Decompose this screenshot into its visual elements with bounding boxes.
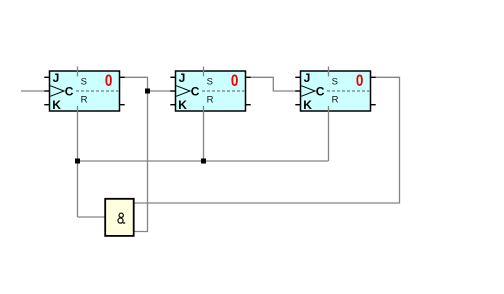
- wire: node A down and left to AND gate U4 lower input: [134, 91, 148, 232]
- svg-text:K: K: [52, 98, 61, 112]
- U2 pin R stub: [203, 106, 205, 112]
- svg-text:K: K: [178, 98, 187, 112]
- wire: AND gate U4 output to node B: [78, 216, 106, 218]
- jk flip-flop U2: [170, 67, 250, 113]
- U3 pin K: [295, 104, 300, 106]
- svg-text:J: J: [179, 71, 186, 85]
- wire: node A to U2.C: [148, 90, 172, 92]
- U3 S-R dashed divider: [327, 90, 369, 92]
- wire: U1.R down to AND output node: [77, 111, 79, 217]
- wire: U2.Q right, down, right to U3.C: [251, 77, 297, 91]
- junction node A: [145, 89, 150, 94]
- U1 pin R stub: [77, 106, 79, 112]
- U1 body: [50, 71, 120, 111]
- svg-text:J: J: [304, 71, 311, 85]
- junction node B: [75, 159, 80, 164]
- U1 S-R dashed divider: [76, 90, 118, 92]
- svg-text:0: 0: [356, 72, 364, 90]
- U1 pin Q: [120, 76, 125, 78]
- U2 pin C: [170, 90, 175, 92]
- svg-text:S: S: [332, 77, 338, 88]
- svg-text:C: C: [65, 84, 74, 98]
- junction node C: [201, 159, 206, 164]
- svg-text:0: 0: [231, 72, 239, 90]
- U1 pin K: [44, 104, 49, 106]
- U2 pin Q: [246, 76, 251, 78]
- wire: clock input to U1.C: [21, 90, 45, 92]
- U4 body: [105, 199, 134, 236]
- U2 S-R dashed divider: [202, 90, 244, 92]
- U3 pin J: [295, 76, 300, 78]
- U1 pin notQ: [120, 104, 125, 106]
- svg-text:S: S: [207, 77, 213, 88]
- U3 clock edge triangle: [301, 86, 315, 97]
- wire: U2.R down to reset bus: [203, 111, 205, 161]
- U4 label &: [118, 213, 125, 223]
- U2 pin J: [170, 76, 175, 78]
- svg-text:J: J: [53, 71, 60, 85]
- U1 clock edge triangle: [50, 86, 64, 97]
- U2 pin K: [170, 104, 175, 106]
- U1 pin C: [44, 90, 49, 92]
- wire: U1.Q right then down to node A: [125, 77, 148, 91]
- svg-text:R: R: [207, 95, 214, 106]
- U1 pin S stub: [77, 67, 79, 77]
- wire: U3.Q right, down, left to AND gate U4 upper input: [134, 77, 400, 203]
- wire: U3.R down to reset bus: [328, 111, 330, 161]
- U2 clock edge triangle: [176, 86, 190, 97]
- U3 body: [301, 71, 371, 111]
- jk flip-flop U1: [44, 67, 124, 113]
- svg-text:R: R: [332, 95, 339, 106]
- U3 pin R stub: [328, 106, 330, 112]
- U2 pin notQ: [246, 104, 251, 106]
- jk flip-flop U3: [295, 67, 375, 113]
- U3 pin C: [295, 90, 300, 92]
- svg-text:R: R: [81, 95, 88, 106]
- svg-text:C: C: [191, 84, 200, 98]
- U2 pin S stub: [203, 67, 205, 77]
- svg-text:K: K: [303, 98, 312, 112]
- svg-text:S: S: [81, 77, 87, 88]
- svg-text:C: C: [316, 84, 325, 98]
- wire: reset bus from node B to U3.R: [78, 160, 329, 162]
- U3 pin notQ: [371, 104, 376, 106]
- U3 pin S stub: [328, 67, 330, 77]
- U1 pin J: [44, 76, 49, 78]
- and gate U4: [105, 199, 134, 236]
- U3 pin Q: [371, 76, 376, 78]
- svg-text:0: 0: [105, 72, 113, 90]
- U2 body: [176, 71, 246, 111]
